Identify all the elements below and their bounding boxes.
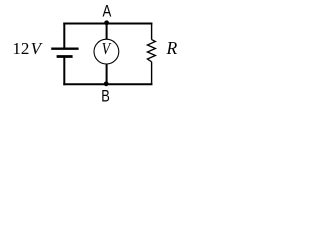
wire left (battery branch bottom) — [63, 57, 65, 86]
battery B1 short plate — [57, 55, 73, 58]
svg-text:12V: 12V — [12, 39, 43, 58]
wire voltmeter branch top — [106, 23, 108, 40]
wire top — [63, 23, 152, 25]
voltmeter V circle — [94, 39, 119, 64]
svg-text:R: R — [166, 38, 178, 58]
svg-text:A: A — [103, 2, 112, 21]
wire bottom — [63, 83, 152, 85]
battery B1 long plate — [51, 48, 78, 50]
node A junction dot — [104, 20, 109, 25]
svg-text:V: V — [102, 40, 112, 59]
wire resistor branch bottom — [151, 62, 153, 85]
wire left (battery branch top) — [63, 23, 65, 49]
wire resistor branch top — [151, 23, 153, 40]
resistor R zigzag — [147, 40, 155, 62]
wire voltmeter branch bottom — [106, 64, 108, 84]
svg-text:B: B — [101, 88, 110, 106]
node B junction dot — [104, 81, 109, 86]
